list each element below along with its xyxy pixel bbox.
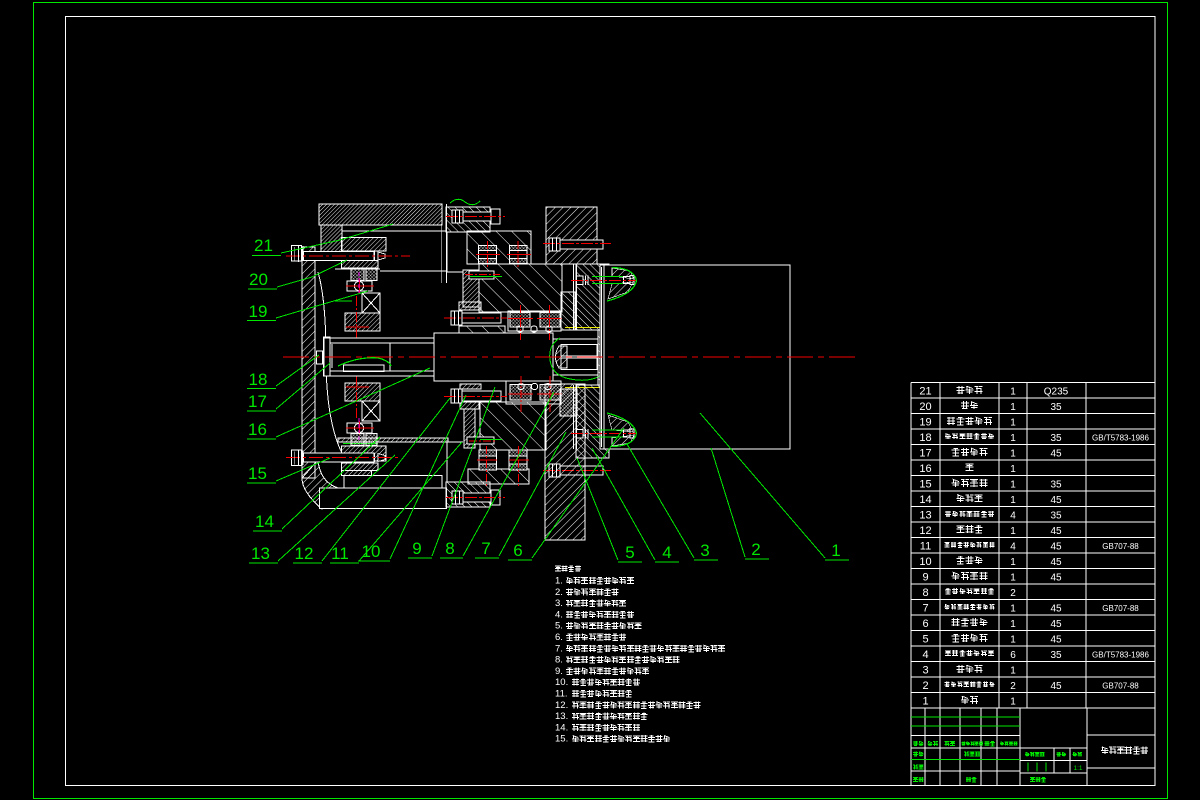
motor flange face line b <box>601 267 603 447</box>
svg-text:GB/T5783-1986: GB/T5783-1986 <box>1092 650 1149 659</box>
bolt15 centerline red <box>286 457 398 459</box>
BOM row line 2 <box>911 413 1155 415</box>
tb label bottom mid <box>1030 778 1035 783</box>
svg-text:1: 1 <box>1010 557 1016 568</box>
note line 10 glyphs <box>572 679 579 686</box>
bolt5b head <box>549 464 560 477</box>
svg-text:1: 1 <box>1010 603 1016 614</box>
svg-text:4: 4 <box>662 543 671 562</box>
svg-text:11: 11 <box>331 544 349 563</box>
label 12 leader <box>322 398 450 561</box>
svg-text:9: 9 <box>412 539 421 558</box>
svg-text:45: 45 <box>1050 619 1062 630</box>
part15 sleeve lower (hatched) <box>342 463 379 471</box>
bearing19b magenta axis <box>358 418 360 442</box>
titleblock mid v 1054 <box>1053 748 1055 773</box>
titleblock v x1020 <box>1019 708 1021 786</box>
svg-text:12.: 12. <box>555 700 568 711</box>
bearing19 race box <box>347 281 372 291</box>
bolt2b thread end <box>624 430 631 437</box>
green seam line bottom <box>343 443 378 445</box>
housing top lip line <box>335 268 380 270</box>
svg-text:12: 12 <box>919 525 931 537</box>
cluster8b balls <box>518 383 524 389</box>
flange3b left edge step <box>446 442 448 482</box>
mass3 strip above shaft <box>459 326 505 333</box>
note line 13 glyphs <box>572 713 579 719</box>
part15 boss (hatched) <box>342 471 372 476</box>
svg-text:7: 7 <box>481 539 490 558</box>
pin7 green axis <box>470 276 502 278</box>
bell inner contour arc <box>318 272 347 462</box>
flange col bottom extra (crosshatch) <box>560 389 577 416</box>
BOM row 5 name glyphs <box>952 634 960 642</box>
svg-text:45: 45 <box>1050 495 1062 506</box>
BOM row line 10 <box>911 537 1155 539</box>
tb label zhongliang <box>1057 752 1062 757</box>
bearing19 ball <box>354 281 363 290</box>
part20 sleeve lower (hatched) <box>342 261 379 269</box>
svg-text:19: 19 <box>249 302 268 321</box>
label 21 underline <box>252 255 281 257</box>
titleblock white hline 735 left <box>911 735 1020 737</box>
mass3b low hatch <box>468 469 529 484</box>
svg-text:6: 6 <box>922 618 928 630</box>
label 21 leader <box>281 224 393 253</box>
label 5 underline <box>618 561 642 563</box>
label 3 underline <box>694 559 718 561</box>
flange joint line a2 <box>573 385 575 449</box>
flange col top extra hatch <box>561 292 575 330</box>
svg-text:1: 1 <box>1010 386 1016 397</box>
label 13 underline <box>249 562 278 564</box>
label 12 underline <box>293 562 322 564</box>
label 18 underline <box>247 388 276 390</box>
sleeve14 top line <box>330 342 434 344</box>
svg-text:1: 1 <box>1010 433 1016 444</box>
bearing19b upper sleeve (hatched) <box>345 383 380 401</box>
BOM row line 14 <box>911 599 1155 601</box>
BOM col line 4 <box>1085 383 1087 709</box>
label 6 leader <box>532 428 624 558</box>
tb label pizhun <box>966 777 971 782</box>
bolt5b shaft <box>560 466 603 475</box>
label 11 underline <box>330 562 359 564</box>
svg-text:45: 45 <box>1050 448 1062 459</box>
bearing19 magenta axis <box>358 272 360 296</box>
mass3 big hatch <box>479 264 562 312</box>
note line 3 glyphs <box>566 600 573 606</box>
motor flange face line a <box>603 265 605 449</box>
coupling hatched tip <box>556 346 568 368</box>
cluster8 balls <box>517 326 523 332</box>
label 19 leader <box>276 291 368 318</box>
titleblock vcol 0 <box>924 708 926 786</box>
BOM row line 0 <box>911 382 1155 384</box>
bearing19 roller box X <box>362 293 380 313</box>
svg-text:1: 1 <box>1010 696 1016 707</box>
svg-text:2: 2 <box>1010 588 1016 599</box>
label 20 leader <box>277 260 347 287</box>
bolt4b centerline red <box>446 497 505 499</box>
svg-text:13: 13 <box>919 509 931 521</box>
bolt21 centerline red <box>286 255 410 257</box>
pin7b body <box>467 437 494 444</box>
flange3 top-left (hatched) <box>446 207 490 232</box>
svg-text:7.: 7. <box>555 643 563 654</box>
BOM row 19 name glyphs <box>947 417 955 425</box>
svg-text:17: 17 <box>248 392 267 411</box>
tb label bili <box>1073 752 1078 756</box>
bolt2 centerline red <box>571 279 637 281</box>
bolt9 head <box>451 311 462 325</box>
svg-text:6: 6 <box>513 541 522 560</box>
svg-text:1: 1 <box>1010 448 1016 459</box>
label 16 leader <box>276 368 430 437</box>
BOM row line 3 <box>911 428 1155 430</box>
svg-text:GB707-88: GB707-88 <box>1102 604 1139 613</box>
BOM row 2 name glyphs <box>945 682 950 687</box>
label 6 underline <box>508 559 532 561</box>
label 20 underline <box>248 288 277 290</box>
bolt5 shaft <box>560 240 603 249</box>
titleblock green hline 759 <box>911 759 1020 761</box>
label 15 leader <box>276 458 330 481</box>
svg-text:9.: 9. <box>555 666 563 677</box>
bolt15 washer line <box>302 451 304 466</box>
note line 15 glyphs <box>572 736 579 743</box>
titleblock green hline a <box>911 716 1020 718</box>
svg-text:8: 8 <box>445 539 454 558</box>
coupling slot upper <box>561 345 597 357</box>
plate17 washer <box>324 337 331 376</box>
boltsec d strips (dense) <box>509 450 527 456</box>
svg-text:9: 9 <box>922 571 928 583</box>
svg-text:35: 35 <box>1050 479 1062 490</box>
svg-text:6.: 6. <box>555 632 563 643</box>
note line 11 glyphs <box>572 690 579 697</box>
svg-text:1: 1 <box>1010 402 1016 413</box>
svg-text:5: 5 <box>922 633 928 645</box>
BOM row line 16 <box>911 630 1155 632</box>
svg-text:2: 2 <box>922 680 928 692</box>
boss2b hatch upper wedge <box>608 415 633 432</box>
svg-text:13.: 13. <box>555 711 568 722</box>
svg-text:13: 13 <box>251 544 270 563</box>
pin7b green axis <box>480 439 502 441</box>
label 7 underline <box>475 557 499 559</box>
BOM row 17 name glyphs <box>952 448 960 456</box>
svg-text:4: 4 <box>1010 510 1016 521</box>
note line 1 glyphs <box>566 577 573 584</box>
titleblock bottom line <box>911 785 1155 787</box>
svg-text:4: 4 <box>1010 541 1016 552</box>
housing bottom flange inner bar <box>344 476 442 489</box>
bearing19b red axis upper <box>356 376 358 418</box>
label 1 leader <box>700 413 825 558</box>
svg-text:GB707-88: GB707-88 <box>1102 681 1139 690</box>
label 16 underline <box>247 438 276 440</box>
BOM row 11 name glyphs <box>945 543 950 548</box>
cluster8b sq b (dense) <box>540 385 561 401</box>
svg-text:45: 45 <box>1050 572 1062 583</box>
bolt4 centerline red <box>446 216 505 218</box>
svg-text:3: 3 <box>700 541 709 560</box>
label 5 leader <box>577 458 618 560</box>
svg-text:21: 21 <box>919 385 931 397</box>
label 17 underline <box>247 410 276 412</box>
bolt15 thread lines <box>374 453 376 462</box>
tb label gongyi <box>913 778 918 783</box>
motor body outline <box>600 265 790 449</box>
bolt4b head <box>452 491 463 504</box>
bolt2 shaft green edges <box>592 276 624 278</box>
svg-text:10: 10 <box>362 542 381 561</box>
flange3 left edge step <box>446 232 448 272</box>
tb label fenqu <box>945 742 950 747</box>
svg-text:8.: 8. <box>555 655 563 666</box>
bell left wall (hatched) <box>302 247 315 478</box>
label 13 leader <box>278 455 395 561</box>
BOM row 18 name glyphs <box>945 434 951 440</box>
label 1 underline <box>825 559 849 561</box>
svg-text:35: 35 <box>1050 650 1062 661</box>
bearing19b red cross <box>346 427 374 429</box>
BOM row 13 name glyphs <box>945 511 951 517</box>
label 9 underline <box>408 557 432 559</box>
tb label biaozhunhua <box>964 752 969 757</box>
label 15 underline <box>247 482 276 484</box>
BOM row line 19 <box>911 676 1155 678</box>
svg-text:20: 20 <box>249 270 268 289</box>
svg-text:1: 1 <box>1010 665 1016 676</box>
beam3 top (hatched) <box>467 231 531 264</box>
coupling slot lower <box>561 358 597 370</box>
titleblock white hline 748 <box>911 747 1087 749</box>
bolt21 washer line <box>302 246 304 261</box>
cluster8 top box <box>508 311 561 331</box>
svg-text:14: 14 <box>255 512 274 531</box>
boltsec c box <box>479 450 497 470</box>
note line 14 glyphs <box>572 725 579 731</box>
label 8 underline <box>440 557 463 559</box>
housing bottom flange outer bar <box>320 488 447 509</box>
bolt15 head <box>292 450 302 466</box>
BOM row 16 name glyphs <box>966 464 974 471</box>
BOM row line 5 <box>911 459 1155 461</box>
bolt9b shaft <box>462 391 501 401</box>
boltsec b strips (dense) <box>509 246 527 251</box>
cluster8b red cross b <box>549 376 551 412</box>
yellow seam bottom <box>565 387 601 389</box>
boss2b hatch lower wedge <box>612 435 634 446</box>
bolt2b shaft green edges <box>592 429 624 431</box>
pin7 red axis <box>465 274 500 276</box>
bearing19 red axis lower <box>356 296 358 338</box>
cluster8 sq b (dense) <box>540 313 560 328</box>
bolt15 tip <box>378 454 385 462</box>
BOM row line 11 <box>911 552 1155 554</box>
sleeve14 end line <box>389 343 391 371</box>
titleblock vcol 3 <box>980 708 982 786</box>
BOM row line 9 <box>911 521 1155 523</box>
svg-text:1: 1 <box>1010 619 1016 630</box>
svg-text:2: 2 <box>751 540 760 559</box>
bolt21 thread lines <box>374 252 376 261</box>
green tick near bearing <box>335 300 352 302</box>
tb drawing title glyphs <box>1101 747 1109 754</box>
bearing19 tick red <box>346 326 369 328</box>
bolt21 head <box>292 246 302 262</box>
bolt4 shaft <box>463 212 491 221</box>
bolt21 tip <box>378 252 385 260</box>
svg-text:4.: 4. <box>555 609 563 620</box>
bolt2 hex head <box>577 276 584 285</box>
flange plate mid strip (hatched) <box>598 330 609 385</box>
tb label biaoji <box>913 741 918 746</box>
svg-text:11: 11 <box>920 540 931 552</box>
bolt5 centerline red <box>543 243 611 245</box>
titleblock vcol 1 <box>939 708 941 786</box>
bolt5 head <box>549 238 560 251</box>
svg-text:11.: 11. <box>555 689 568 700</box>
boltsec b box <box>509 246 527 264</box>
svg-text:3.: 3. <box>555 598 563 609</box>
bolt4b shaft <box>463 493 491 502</box>
boltsec c strips (dense) <box>479 450 497 456</box>
svg-text:1: 1 <box>1010 634 1016 645</box>
flange joint line b2 <box>576 385 578 449</box>
shaft mid section <box>434 333 553 381</box>
label 14 underline <box>253 530 282 532</box>
BOM row 15 name glyphs <box>952 479 960 487</box>
BOM row 7 name glyphs <box>945 604 950 609</box>
boss2 hatch lower wedge <box>608 282 633 299</box>
BOM row line 17 <box>911 645 1155 647</box>
svg-text:Q235: Q235 <box>1044 386 1069 397</box>
green crescent over key <box>338 358 391 366</box>
BOM row line 15 <box>911 614 1155 616</box>
BOM row line 4 <box>911 444 1155 446</box>
svg-text:17: 17 <box>919 447 931 459</box>
bolt9b centerline red <box>444 396 507 398</box>
BOM row 4 name glyphs <box>945 651 951 656</box>
pin7 body <box>469 271 494 279</box>
svg-text:1: 1 <box>831 541 840 560</box>
note line 12 glyphs <box>572 702 579 708</box>
boltsec b red cross <box>517 241 519 268</box>
bolt4 head <box>452 210 463 223</box>
cluster8 sq a (dense) <box>510 313 530 328</box>
tb label chushu <box>928 741 933 746</box>
bearing19b tick red <box>346 386 369 388</box>
svg-text:5: 5 <box>625 543 634 562</box>
bolt2b hex head <box>577 430 584 439</box>
titleblock mid hline 760 <box>1020 760 1087 762</box>
label 2 underline <box>745 558 769 560</box>
mass3b strip above (hatched) <box>460 384 481 389</box>
cluster8 red cross a <box>520 305 522 340</box>
flange joint line b <box>576 264 578 330</box>
mass3 flange strip (hatched) <box>463 270 479 307</box>
main centerline red <box>283 356 858 358</box>
mass3 strip low (hatched) <box>459 302 481 310</box>
shaft left section <box>324 338 434 376</box>
label 4 leader <box>592 448 655 560</box>
housing inner top line <box>342 230 446 232</box>
svg-text:15.: 15. <box>555 734 568 745</box>
housing top flange leg (dense hatch) <box>321 225 342 260</box>
titleblock mid hline 773 <box>1020 772 1087 774</box>
cluster8 red cross b <box>549 305 551 340</box>
label 9 leader <box>432 387 495 556</box>
titleblock right hline 735 <box>1087 734 1155 736</box>
plate17 inner line <box>331 344 333 368</box>
label 14 leader <box>282 437 380 529</box>
svg-text:15: 15 <box>919 478 931 490</box>
svg-text:12: 12 <box>295 544 314 563</box>
titleblock v x1087 <box>1086 708 1088 786</box>
BOM row line 12 <box>911 568 1155 570</box>
BOM row 3 name glyphs <box>956 665 964 673</box>
BOM row 21 name glyphs <box>956 386 964 394</box>
BOM row line 7 <box>911 490 1155 492</box>
BOM row 1 name glyphs <box>961 696 969 704</box>
titleblock right hline 768 <box>1087 767 1155 769</box>
BOM row 6 name glyphs <box>952 618 960 626</box>
note line 4 glyphs <box>566 611 573 618</box>
bearing19 upper blocks (dense) <box>351 269 364 281</box>
green wave above flange <box>450 199 480 205</box>
svg-text:45: 45 <box>1050 541 1062 552</box>
BOM row 9 name glyphs <box>952 572 960 580</box>
svg-text:1.: 1. <box>555 576 563 587</box>
bearing19 lower sleeve (hatched) <box>345 313 380 331</box>
svg-text:1: 1 <box>1010 495 1016 506</box>
note line 6 glyphs <box>566 634 573 641</box>
svg-text:45: 45 <box>1050 557 1062 568</box>
BOM col line 1 <box>939 383 941 709</box>
bolt9 shaft <box>462 313 501 323</box>
cluster8b bottom box <box>506 381 561 404</box>
svg-text:35: 35 <box>1050 433 1062 444</box>
svg-text:18: 18 <box>919 432 931 444</box>
svg-text:1: 1 <box>1010 464 1016 475</box>
BOM row 14 name glyphs <box>956 495 964 503</box>
bearing19 red cross <box>346 285 374 287</box>
BOM row line 8 <box>911 506 1155 508</box>
svg-text:45: 45 <box>1050 526 1062 537</box>
svg-text:7: 7 <box>922 602 928 614</box>
housing right wall line b <box>445 204 447 283</box>
label 17 leader <box>276 363 330 409</box>
notes header jishu yaoqiu <box>555 566 561 571</box>
svg-text:14.: 14. <box>555 722 568 733</box>
cluster8b sq a (dense) <box>510 385 531 401</box>
BOM row line 21 <box>911 707 1155 709</box>
bolt15 shaft <box>304 453 375 462</box>
svg-text:14: 14 <box>919 494 931 506</box>
bearing19b race box <box>347 423 372 433</box>
svg-text:4: 4 <box>922 649 928 661</box>
boltsec d box <box>509 450 527 470</box>
label 18 leader <box>276 355 319 386</box>
note line 7 glyphs <box>566 645 573 652</box>
label 10 underline <box>358 560 390 562</box>
mass3b flange strip (hatched) <box>464 409 475 448</box>
bearing19b roller box X <box>362 401 380 421</box>
BOM col line 2 <box>998 383 1000 709</box>
